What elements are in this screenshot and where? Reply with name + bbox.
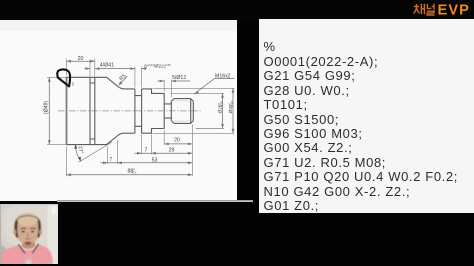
27deg arc (76, 144, 81, 161)
arrow o30 up (232, 88, 235, 93)
mouth (25, 241, 31, 244)
27deg construction line (79, 142, 113, 162)
arrow 27 arc bottom (78, 157, 81, 162)
svg-text:Ø260-0.02: Ø260-0.02 (217, 100, 224, 113)
dimension lines (49, 61, 234, 175)
arrow o30 down (232, 129, 235, 134)
arrow 6o22 E (130, 67, 135, 70)
groove 6/o22 (135, 89, 142, 133)
dim o26 vertical (222, 93, 224, 128)
ext o30 bottom (153, 132, 235, 134)
arrow o49 down (48, 140, 51, 145)
bald crown highlight (17, 213, 38, 226)
webcam top border (0, 204, 58, 205)
chin shade (22, 245, 34, 247)
svg-text:20: 20 (78, 56, 84, 62)
channel logo 채널EVP (413, 3, 474, 16)
arrow 4o41 E (86, 67, 91, 70)
arrow 53 W (117, 161, 122, 164)
ext o26 bottom (196, 128, 224, 130)
ext 20top left (66, 59, 68, 76)
svg-text:7: 7 (109, 157, 112, 163)
ext x141.6 down (141, 135, 143, 155)
webcam overlay (0, 204, 58, 264)
part top profile (67, 77, 165, 93)
arrow R5 leader (119, 81, 123, 85)
arrow 88 W (67, 173, 72, 176)
arrow 6o22 W (142, 67, 147, 70)
hangul 채 (413, 4, 424, 15)
hangul 널 (427, 4, 434, 15)
arrow o49 up (48, 77, 51, 82)
arrow 20top W (67, 60, 72, 63)
arrow 53 E (188, 161, 193, 164)
small pen tick (71, 82, 74, 86)
ears (13, 229, 16, 234)
arrow 4o41 W (95, 67, 100, 70)
undershirt glimpse (25, 253, 34, 264)
webcam background wall (0, 204, 58, 264)
ext o49 top (47, 76, 67, 78)
M16x2 underline + leader (194, 79, 234, 95)
dim o30 vertical (232, 88, 234, 133)
wall bright strip (48, 204, 59, 264)
left CAD drawing panel (0, 20, 237, 201)
arrow 20bot E (188, 143, 193, 146)
svg-text:20: 20 (174, 138, 180, 144)
arrow 7b E (103, 161, 108, 164)
right G-code panel (259, 19, 474, 213)
ext x107.5 down (107, 147, 109, 164)
ext o22 groove up (135, 67, 142, 88)
hair right (37, 220, 41, 238)
svg-text:(Ø49): (Ø49) (44, 100, 50, 114)
svg-text:6+0.04/Ø22+0.050: 6+0.04/Ø22+0.050 (144, 63, 171, 70)
ext x66.5 down (66, 147, 68, 177)
webcam left border (0, 204, 1, 264)
extension lines (47, 59, 235, 177)
svg-text:29: 29 (169, 147, 175, 153)
svg-text:880-0.1: 880-0.1 (128, 168, 138, 175)
wall dark corner (0, 244, 8, 264)
arrow M16 leader (194, 91, 199, 95)
ext o30 top (153, 87, 235, 89)
arrowheads (48, 60, 235, 176)
R5 leader (119, 76, 128, 85)
arrow 29 E (188, 152, 193, 155)
dim 20 top (67, 60, 95, 62)
svg-text:27°: 27° (77, 146, 85, 155)
CAD technical drawing (0, 20, 237, 201)
arrow 5o12 W (171, 80, 176, 83)
ext o49 bottom (47, 144, 67, 146)
svg-text:53: 53 (152, 157, 158, 163)
dimension texts (44, 56, 235, 175)
arrow 29 W (151, 152, 156, 155)
ext x90 up (89, 60, 91, 77)
arrow 20bot W (164, 143, 169, 146)
window bottom edge line (57, 200, 253, 202)
collar trim (19, 244, 39, 254)
arrow o26 down (221, 124, 224, 129)
part bottom profile (67, 129, 165, 145)
dim 5/o12 (158, 80, 191, 82)
top black bar (0, 0, 474, 20)
svg-text:EVP: EVP (438, 3, 471, 17)
dim 4/o41 + 6/o22 line (85, 68, 147, 70)
ext x151.4 down (150, 135, 152, 155)
dim 7 and 53 (101, 162, 193, 164)
svg-text:R5: R5 (118, 73, 127, 82)
eyes (22, 230, 25, 232)
svg-text:M16x2: M16x2 (215, 73, 231, 79)
dim 7 and 29 (135, 152, 193, 154)
head (14, 212, 42, 243)
dim o49 vertical (48, 78, 50, 144)
ext x192.4 down (191, 125, 193, 177)
groove 4/o41 (90, 77, 95, 144)
thread M16x2 body (171, 99, 193, 124)
G-code text (264, 40, 474, 213)
nose (26, 232, 29, 238)
svg-text:Ø300-0.02: Ø300-0.02 (228, 100, 235, 113)
eyebrows (21, 227, 37, 230)
shirt (0, 244, 53, 264)
ext o12 groove up (164, 80, 171, 97)
part left face (66, 77, 68, 144)
ext x164.2 down (163, 130, 165, 145)
centerline (58, 110, 201, 112)
arrow o26 up (221, 93, 224, 98)
arrow 20top E (90, 60, 95, 63)
arrow 5o12 E (160, 80, 165, 83)
arrow 27 arc top (74, 144, 77, 149)
hand-drawn black flag annotation (57, 69, 70, 86)
ext x94.8 up (94, 59, 96, 76)
arrow 7a E (137, 152, 142, 155)
hair top fringe (16, 215, 40, 220)
hair left (15, 220, 19, 238)
ext x117.4 down (116, 140, 118, 164)
dim 88 (67, 174, 193, 176)
svg-text:5/Ø12: 5/Ø12 (172, 75, 186, 81)
svg-text:7: 7 (144, 147, 147, 153)
ext o26 top (171, 92, 225, 94)
arrow 88 E (188, 173, 193, 176)
groove 5/o12 (164, 93, 171, 128)
svg-text:4/Ø41: 4/Ø41 (100, 62, 114, 68)
thread minor dia lines (174, 101, 191, 121)
faint toolbar band (0, 20, 237, 31)
dim 20 bottom (164, 143, 192, 145)
neck (22, 238, 35, 249)
